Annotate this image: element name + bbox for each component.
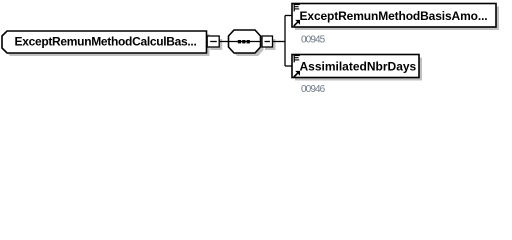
child 1 annotation icon (lines) <box>294 4 300 12</box>
sequence compositor shadow <box>232 33 264 56</box>
element box ExceptRemunMethodBasisAmo (child 1) shadow <box>295 7 499 31</box>
svg-text:00946: 00946 <box>301 84 326 95</box>
wire parent-handle to sequence <box>219 41 228 43</box>
expand handle of sequence (minus box) <box>262 36 276 50</box>
element box AssimilatedNbrDays (child 2) shadow <box>295 58 422 81</box>
wire branch to child 2 <box>285 65 292 67</box>
svg-text:ExceptRemunMethodBasisAmo...: ExceptRemunMethodBasisAmo... <box>300 9 488 23</box>
sequence compositor (octagon with dots) <box>229 30 261 53</box>
element box AssimilatedNbrDays (child 2) <box>292 55 419 78</box>
label 00946 <box>301 84 326 95</box>
svg-text:00945: 00945 <box>301 35 326 46</box>
element box ExceptRemunMethodCalculBas (parent) shadow <box>5 34 210 56</box>
element box ExceptRemunMethodCalculBas (parent) <box>2 31 207 53</box>
child 1 reference arrow icon <box>294 20 300 26</box>
wire sequence to branch <box>273 41 286 43</box>
label 00945 <box>301 35 326 46</box>
svg-text:ExceptRemunMethodCalculBas...: ExceptRemunMethodCalculBas... <box>15 35 197 49</box>
expand handle of parent (minus box) <box>207 36 222 50</box>
wire branch vertical <box>284 16 286 67</box>
wire branch to child 1 <box>285 15 292 17</box>
child 2 reference arrow icon <box>294 71 300 77</box>
child 2 annotation icon (lines) <box>294 55 300 63</box>
svg-text:AssimilatedNbrDays: AssimilatedNbrDays <box>300 59 417 73</box>
element box ExceptRemunMethodBasisAmo (child 1) <box>292 4 496 28</box>
